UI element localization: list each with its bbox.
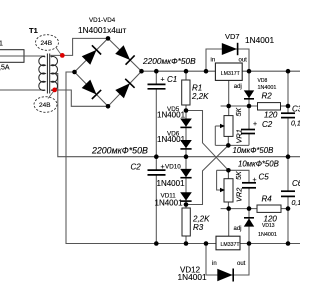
svg-text:R4: R4	[262, 194, 273, 203]
svg-text:+: +	[161, 164, 165, 171]
svg-text:0,1: 0,1	[292, 200, 301, 207]
svg-text:1N4001х4шт: 1N4001х4шт	[78, 25, 126, 35]
svg-text:VR1: VR1	[234, 129, 243, 143]
svg-text:1N4001: 1N4001	[157, 110, 186, 119]
svg-text:24В: 24В	[41, 40, 53, 47]
svg-text:2,2K: 2,2K	[191, 92, 209, 101]
svg-text:adj: adj	[234, 84, 242, 90]
svg-text:R2: R2	[262, 92, 273, 101]
svg-text:VD7: VD7	[225, 32, 240, 41]
svg-text:VD13: VD13	[262, 223, 275, 229]
svg-text:120: 120	[264, 215, 278, 224]
svg-text:+: +	[253, 121, 257, 128]
svg-text:VD1-VD4: VD1-VD4	[89, 17, 116, 24]
svg-text:T1: T1	[29, 26, 38, 35]
svg-text:1N4001: 1N4001	[157, 179, 186, 188]
svg-text:2200мкФ*50В: 2200мкФ*50В	[91, 146, 148, 156]
svg-text:in: in	[212, 261, 217, 267]
svg-text:VD8: VD8	[258, 78, 268, 84]
svg-text:C5: C5	[259, 173, 270, 182]
svg-text:out: out	[239, 58, 248, 64]
svg-text:5К: 5К	[234, 107, 243, 116]
svg-text:R3: R3	[193, 223, 204, 232]
svg-text:+: +	[161, 77, 165, 84]
svg-text:2200мкФ*50В: 2200мкФ*50В	[142, 56, 196, 66]
svg-text:out: out	[237, 261, 246, 267]
svg-text:C1: C1	[167, 75, 177, 84]
svg-text:C2: C2	[131, 162, 142, 171]
svg-text:,5A: ,5A	[0, 65, 10, 72]
svg-text:1N4001: 1N4001	[178, 272, 207, 282]
svg-text:C6: C6	[292, 179, 300, 188]
svg-text:1N4001: 1N4001	[157, 135, 186, 144]
svg-text:C2: C2	[262, 120, 273, 129]
svg-text:C3: C3	[292, 105, 300, 114]
svg-text:10мкФ*50В: 10мкФ*50В	[233, 146, 274, 155]
svg-text:in: in	[211, 58, 216, 64]
svg-text:1: 1	[0, 41, 3, 48]
svg-text:0,1: 0,1	[291, 121, 300, 128]
svg-text:VD10: VD10	[165, 163, 181, 170]
svg-text:1N4001: 1N4001	[245, 35, 274, 45]
svg-text:24В: 24В	[39, 102, 51, 109]
svg-text:LM337T: LM337T	[221, 242, 241, 248]
svg-text:1N4001: 1N4001	[258, 85, 277, 91]
svg-text:1N4001: 1N4001	[258, 232, 277, 238]
svg-text:10мкФ*50В: 10мкФ*50В	[238, 159, 279, 168]
svg-text:adj: adj	[234, 226, 242, 232]
svg-text:+: +	[253, 177, 257, 184]
svg-text:LM317T: LM317T	[221, 71, 241, 77]
svg-text:120: 120	[264, 110, 278, 119]
svg-text:VR2: VR2	[234, 188, 243, 202]
svg-text:5К: 5К	[234, 171, 243, 180]
svg-text:1N4001: 1N4001	[155, 198, 184, 207]
